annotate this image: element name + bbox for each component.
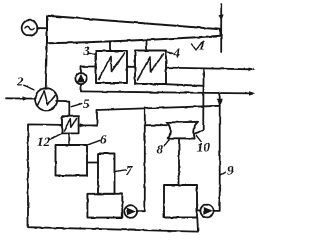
- makeup line 9: [214, 93, 223, 211]
- svg-text:7: 7: [126, 163, 133, 178]
- svg-text:6: 6: [100, 132, 107, 147]
- svg-text:8: 8: [157, 142, 164, 157]
- label 9: [221, 163, 235, 178]
- label 2: [16, 74, 34, 90]
- label 1: [192, 38, 206, 53]
- heater 3: [96, 51, 127, 83]
- pump P3 under heater 3: [75, 73, 86, 84]
- wire cooler5 drain with arrow: [79, 110, 97, 128]
- svg-text:4: 4: [173, 45, 181, 60]
- wire pump1 discharge riser: [137, 107, 145, 211]
- network water line 2 with arrow: [81, 91, 255, 95]
- wire to deaerator 8 inlet: [145, 124, 167, 126]
- wire extraction riser to heater 3: [109, 41, 111, 51]
- wire tank11 to pump2: [197, 210, 200, 212]
- network water outlet line 1 with arrow: [166, 68, 255, 72]
- wire deaerator to tank 11: [178, 139, 180, 185]
- label 7: [115, 163, 133, 178]
- deaerator 8: [167, 122, 198, 139]
- drain cooler 5: [62, 116, 79, 133]
- wire pump to heater 3 inlet: [81, 67, 96, 74]
- wire tank6 to column 7: [87, 162, 98, 164]
- tank 6: [56, 145, 88, 176]
- svg-text:12: 12: [37, 134, 51, 149]
- pump P2: [200, 204, 213, 217]
- label 10: [197, 136, 211, 155]
- svg-text:9: 9: [228, 163, 235, 178]
- drain line 3: [97, 106, 220, 110]
- wire pump suction: [80, 84, 82, 91]
- label 6: [88, 132, 107, 147]
- generator: [22, 20, 38, 36]
- label 4: [164, 45, 180, 60]
- label 8: [157, 140, 170, 157]
- wire heater3-heater4: [127, 66, 135, 68]
- steam feed line with arrow: [219, 4, 224, 52]
- column 7: [87, 154, 122, 218]
- inlet arrow to heater 2: [6, 96, 35, 100]
- wire heater2 to cooler 5: [56, 101, 69, 116]
- drain from heater 4: [166, 84, 203, 86]
- wire turbine to heater 2: [46, 43, 47, 88]
- turbine 1: [47, 16, 220, 44]
- heater 2: [35, 88, 57, 110]
- wire cooler5 to tank 6: [68, 133, 70, 144]
- tank 11: [164, 185, 197, 218]
- svg-text:10: 10: [197, 140, 211, 155]
- svg-text:2: 2: [16, 74, 24, 89]
- label 12: [37, 134, 61, 149]
- svg-text:1: 1: [199, 38, 206, 53]
- label 5: [71, 96, 90, 111]
- heater 4: [135, 51, 166, 85]
- heating steam line 10 to deaerator: [195, 69, 203, 134]
- svg-text:5: 5: [83, 96, 90, 111]
- pump P1: [124, 205, 137, 218]
- wire left loop: [28, 124, 198, 231]
- svg-text:3: 3: [83, 43, 91, 58]
- wire extraction riser to heater 4: [145, 40, 147, 51]
- label 3: [83, 43, 96, 58]
- shaft wire generator-turbine: [37, 27, 47, 29]
